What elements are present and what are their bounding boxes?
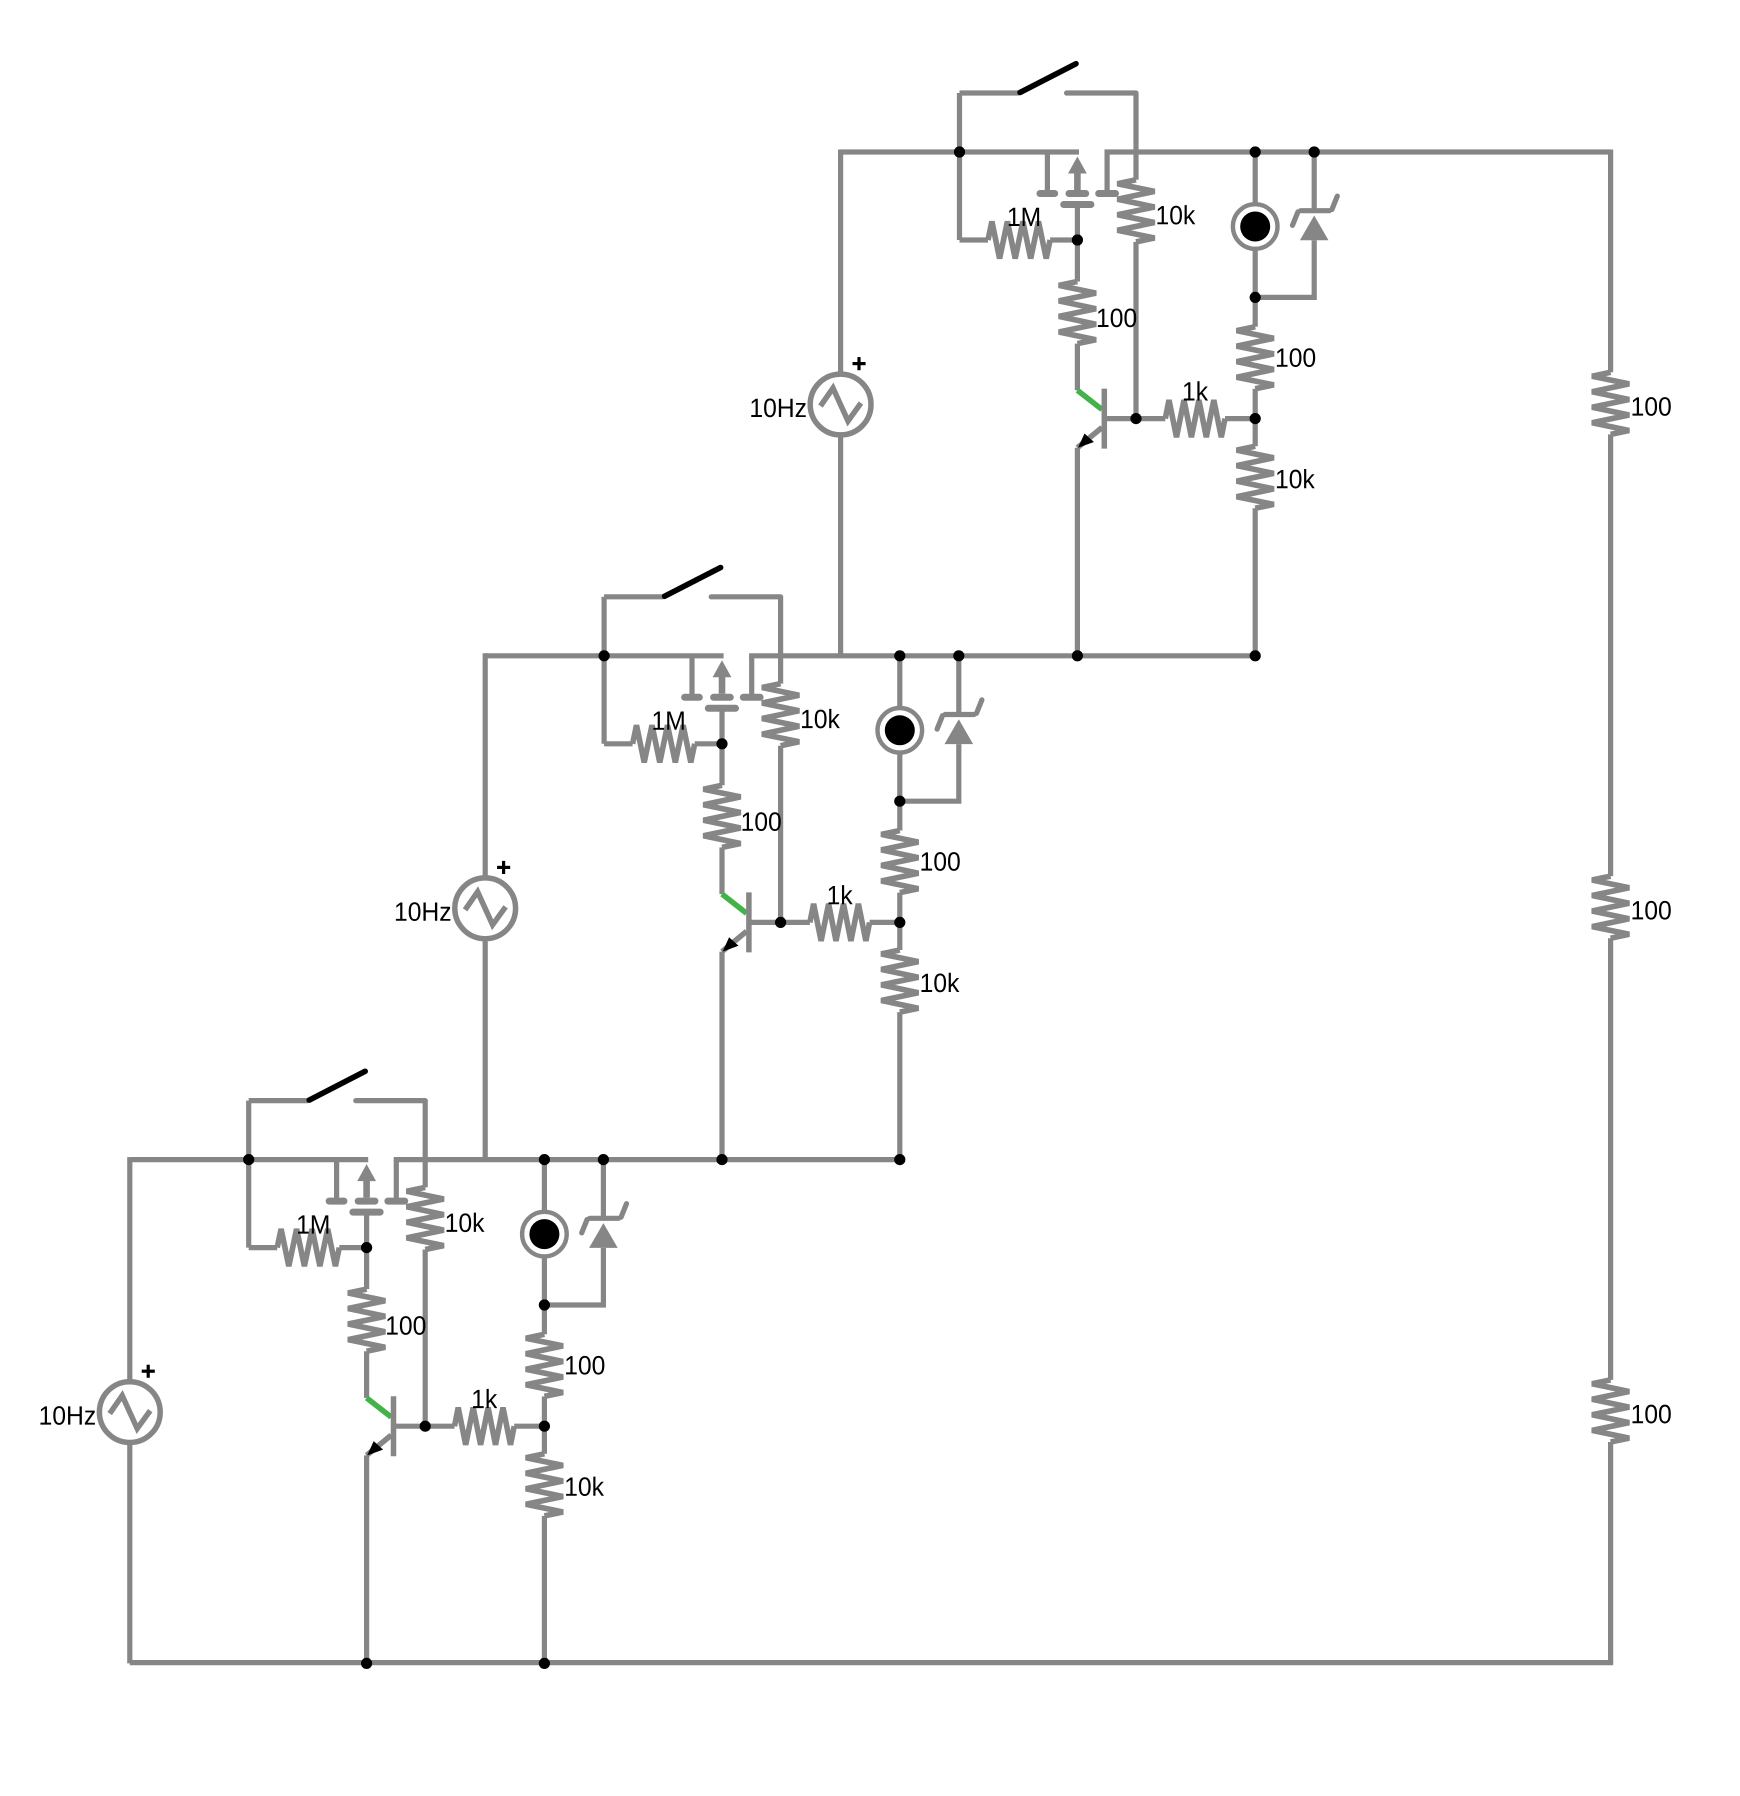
resistor R2d 1k [781,920,810,925]
node: base of Q1 [1130,413,1141,424]
resistor R1d 1k [1136,416,1165,421]
node: top rail at zener Z1 [1309,146,1320,157]
resistor R2e 100 [897,801,902,830]
node: top rail at zener Z2 [953,650,964,661]
label 10Hz for VS1 [751,398,805,417]
label 100 for R1e [1277,348,1315,367]
wire: zener Z1 to LED bottom node [1255,240,1314,297]
wire: left rail lower, block 3 [127,1442,132,1663]
wire: top rail left segment, block 1 [841,149,1079,154]
wire: right rail bottom segment [1608,1442,1613,1663]
label 1k for R1d [1184,381,1208,400]
node: emitter of Q1 landing [1072,650,1083,661]
node: R1d / R1e / R1f junction [1250,413,1261,424]
transistor Q2 body [746,892,752,952]
MOSFET M3 gate [353,1209,380,1216]
label 100 for R2e [921,852,959,871]
wire: left rail lower, block 1 [838,435,843,656]
wire: top rail right segment, block 3 [394,1157,900,1162]
zener diode Z3 [601,1160,606,1219]
label 100 for R1c [1098,308,1136,327]
resistor R1e 100 [1253,297,1258,326]
LED D1a [1253,152,1258,203]
resistor R1c 100 [1075,240,1080,282]
resistor R2c 100 [719,744,724,786]
switch SW2 blade [665,568,721,597]
MOSFET M3 [334,1160,339,1199]
label 1M for R3b [298,1215,328,1233]
transistor Q1 emitter [1077,428,1102,448]
wire: top rail left segment, block 3 [130,1157,368,1162]
wire: left rail upper, block 2 [483,653,488,878]
transistor Q3 emitter [367,1435,392,1455]
voltage source VS2 10Hz [455,878,516,939]
node: emitter of Q3 landing [361,1658,372,1669]
node: top rail at switch SW1 leg [954,146,965,157]
transistor Q2 emitter [722,931,747,951]
wire: right rail third segment [1608,938,1613,1380]
resistor R2a 10k [762,684,799,746]
node: R1f landing [1250,650,1261,661]
resistor R3f 10k [542,1426,547,1454]
plus sign of VS2 [497,866,510,869]
node: top rail at LED D2a [894,650,905,661]
voltage source VS3 10Hz [99,1382,160,1443]
wire: right rail top segment [1608,150,1613,373]
LED D2a [897,656,902,707]
wire: zener Z2 to LED bottom node [900,744,959,801]
label 10k for R3a [447,1213,485,1232]
node: emitter of Q2 landing [716,1154,727,1165]
resistor R3e 100 [542,1305,547,1334]
wire: zener Z3 to LED bottom node [544,1248,603,1305]
node: gate of M2 / R2b / R2c junction [716,738,727,749]
wire: left rail upper, block 1 [838,150,843,375]
wire: emitter of Q1 down [1075,448,1080,656]
transistor Q2 collector (green highlight) [722,894,747,913]
LED D3a [542,1160,547,1211]
resistor R1a 10k [1117,180,1154,242]
switch SW2 (open) [604,594,664,599]
wire: emitter of Q2 down [719,952,724,1160]
wire: switch right leg, block 1 [1133,93,1138,180]
zener diode Z2 [956,656,961,715]
label 10k for R2a [802,709,840,728]
node: base of Q3 [420,1421,431,1432]
wire: left rail upper, block 3 [127,1157,132,1382]
node: top rail at switch SW3 leg [243,1154,254,1165]
wire: emitter of Q3 down [364,1455,369,1663]
switch SW1 blade [1020,64,1076,93]
resistor R3d 1k [425,1424,454,1429]
node: top rail at switch SW2 leg [599,650,610,661]
label 1M for R1b [1009,208,1039,226]
label 10k for R1a [1157,205,1195,224]
label 100 for R3e [566,1356,604,1375]
label 100 for R8 [1632,901,1670,920]
node: LED D1a / zener Z1 junction [1250,292,1261,303]
resistor R3b 1M [249,1245,278,1250]
wire: top rail left segment, block 2 [485,653,723,658]
zener diode Z1 [1312,152,1317,211]
node: top rail at LED D3a [539,1154,550,1165]
switch SW3 blade [309,1071,365,1100]
node: top rail at LED D1a [1250,146,1261,157]
label 1M for R2b [653,712,683,730]
resistor R3c 100 [364,1248,369,1290]
transistor Q1 collector (green highlight) [1077,390,1102,409]
transistor Q1 body [1102,389,1108,449]
node: top rail at zener Z3 [598,1154,609,1165]
node: gate of M1 / R1b / R1c junction [1072,234,1083,245]
resistor R8 100 (right rail middle) [1592,876,1629,938]
wire: top rail right segment, block 2 [749,653,1255,658]
label 1k for R2d [828,885,852,904]
voltage source VS1 10Hz [810,374,871,435]
resistor R2b 1M [604,741,633,746]
node: LED D3a / zener Z3 junction [539,1299,550,1310]
transistor Q3 body [391,1396,397,1456]
node: LED D2a / zener Z2 junction [894,796,905,807]
resistor R1f 10k [1253,419,1258,447]
label 10k for R3f [566,1477,604,1496]
transistor Q3 collector (green highlight) [367,1398,392,1417]
MOSFET M2 [689,656,694,695]
label 10Hz for VS2 [396,902,450,921]
node: gate of M3 / R3b / R3c junction [361,1242,372,1253]
wire: switch left leg, block 3 [246,1101,251,1248]
wire: switch left leg, block 2 [601,597,606,744]
wire: switch right leg, block 2 [778,597,783,684]
node: R2d / R2e / R2f junction [894,917,905,928]
MOSFET M1 [1045,152,1050,191]
node: R2f landing [894,1154,905,1165]
wire: top rail right segment, block 1 [1105,149,1611,154]
resistor R7 100 (right rail top) [1592,372,1629,434]
label 100 for R9 [1632,1405,1670,1424]
label 1k for R3d [473,1389,497,1408]
resistor R1b 1M [960,237,989,242]
plus sign of VS1 [853,362,866,365]
label 10Hz for VS3 [40,1406,94,1425]
MOSFET M2 gate [708,705,735,712]
node: base of Q2 [775,917,786,928]
node: R3d / R3e / R3f junction [539,1421,550,1432]
label 100 for R3c [387,1316,425,1335]
MOSFET M1 gate [1064,201,1091,208]
label 100 for R2c [742,812,780,831]
switch SW1 (open) [960,90,1020,95]
resistor R2f 10k [897,922,902,950]
wire: bottom rail [130,1660,1613,1665]
wire: left rail lower, block 2 [483,938,488,1159]
plus sign of VS3 [142,1370,155,1373]
wire: switch left leg, block 1 [957,93,962,240]
wire: right rail second segment [1608,434,1613,876]
wire: switch right leg, block 3 [423,1101,428,1188]
node: R3f landing [539,1658,550,1669]
resistor R9 100 (right rail bottom) [1592,1380,1629,1442]
label 10k for R2f [921,973,959,992]
resistor R3a 10k [407,1187,444,1249]
switch SW3 (open) [249,1098,309,1103]
label 10k for R1f [1277,469,1315,488]
label 100 for R7 [1632,397,1670,416]
